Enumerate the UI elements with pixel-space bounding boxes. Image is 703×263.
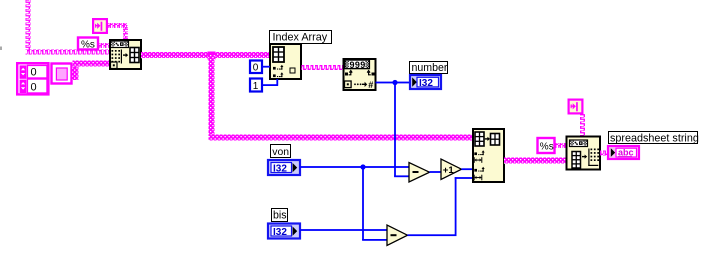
function: increment +1 — [441, 159, 462, 180]
wire: %s to U2 format input — [555, 143, 567, 148]
label: number — [410, 62, 448, 74]
function U1: Spreadsheet String To Array — [110, 40, 141, 69]
wire: Index Array element out to Decimal String To Number — [301, 65, 344, 70]
svg-text:abc: abc — [618, 148, 634, 158]
svg-text:Index Array: Index Array — [273, 32, 328, 44]
numeric constant 1 — [250, 79, 262, 93]
tab constant (top-left delimiter) — [93, 19, 107, 33]
wire: number out with junction — [376, 80, 411, 177]
stray mark at left edge — [0, 47, 2, 51]
indicator: number (I32) — [410, 75, 441, 89]
svg-text:0: 0 — [253, 63, 259, 74]
label: Index Array — [270, 31, 332, 44]
function: Array Subset — [473, 129, 504, 182]
wire: string input from top-left (vertical) — [26, 0, 31, 50]
wire: array constant to U1 array input — [71, 61, 110, 81]
svg-text:%s: %s — [81, 40, 95, 51]
wire: U1 output string array to Index Array (with junction) — [141, 52, 473, 141]
wire: string input horizontal run to U1 — [26, 50, 110, 55]
wire: %s to U1 format input — [99, 43, 109, 48]
svg-text:I32: I32 — [419, 78, 433, 89]
empty string array constant (square) — [52, 64, 72, 84]
svg-text:1: 1 — [253, 81, 259, 92]
svg-text:#: # — [368, 80, 373, 90]
svg-text:+1: +1 — [443, 165, 455, 176]
function: Index Array — [270, 44, 301, 79]
wire: von to subtract with junction — [300, 164, 409, 240]
indicator: spreadsheet string (abc) — [608, 146, 639, 159]
function: Decimal String To Number — [344, 59, 376, 90]
svg-text:spreadsheet string: spreadsheet string — [610, 132, 699, 144]
wire: constant 0 to Index Array — [262, 66, 270, 68]
wire: tab constant to U1 top — [108, 23, 128, 39]
tab constant (right delimiter) — [569, 100, 583, 114]
wire: bis to subtract2 — [300, 229, 387, 231]
svg-text:von: von — [272, 147, 289, 158]
wire: +1 out to Array Subset index — [462, 168, 474, 170]
label: spreadsheet string — [609, 132, 699, 145]
string array constant (two "0" elements) — [17, 63, 48, 94]
svg-text:I32: I32 — [273, 164, 287, 175]
svg-text:%s: %s — [540, 142, 554, 153]
wire: U2 out to spreadsheet string indicator — [600, 151, 608, 156]
label: bis — [272, 209, 288, 222]
control: bis (I32) — [268, 224, 300, 239]
wire: tab constant down to U2 — [580, 114, 585, 138]
svg-text:bis: bis — [273, 210, 287, 222]
function U2: Array To Spreadsheet String — [567, 137, 601, 170]
svg-text:0: 0 — [31, 82, 37, 94]
label: von — [271, 145, 291, 159]
function: subtract (bottom) — [387, 225, 408, 246]
wire: Array Subset out to U2 — [504, 158, 567, 164]
wire: constant 1 to Index Array — [262, 79, 278, 86]
svg-text:number: number — [412, 62, 448, 74]
string format constant %s (right) — [538, 138, 555, 153]
svg-text:0: 0 — [31, 67, 37, 79]
wire: subtract out to +1 — [430, 171, 442, 173]
wire: subtract2 out up to Array Subset length — [408, 177, 474, 236]
svg-text:I32: I32 — [273, 227, 287, 238]
string format constant %s (left) — [78, 38, 98, 51]
function: subtract (top) — [409, 163, 430, 183]
svg-text:999: 999 — [350, 60, 366, 70]
numeric constant 0 — [250, 61, 262, 74]
control: von (I32) — [268, 160, 300, 175]
